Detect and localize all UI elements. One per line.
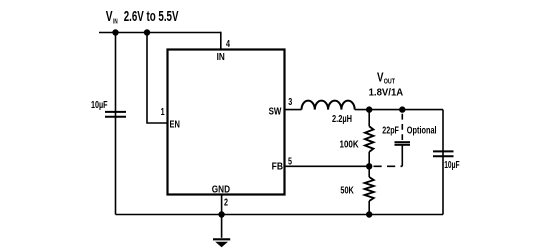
svg-text:SW: SW — [269, 105, 282, 116]
svg-text:4: 4 — [226, 38, 230, 49]
svg-text:Optional: Optional — [407, 124, 437, 136]
svg-text:IN: IN — [113, 17, 118, 25]
svg-text:1: 1 — [161, 106, 165, 117]
svg-text:2.6V to 5.5V: 2.6V to 5.5V — [124, 8, 179, 24]
svg-text:22pF: 22pF — [382, 124, 399, 136]
svg-text:V: V — [106, 8, 113, 24]
svg-text:3: 3 — [288, 96, 292, 107]
svg-text:FB: FB — [272, 161, 284, 173]
svg-text:10µF: 10µF — [91, 99, 108, 111]
svg-text:1.8V/1A: 1.8V/1A — [369, 87, 404, 98]
svg-text:2: 2 — [224, 196, 228, 207]
svg-text:10µF: 10µF — [444, 158, 460, 170]
svg-text:50K: 50K — [340, 184, 354, 196]
svg-text:100K: 100K — [340, 139, 359, 150]
svg-text:2.2µH: 2.2µH — [332, 113, 352, 124]
svg-text:EN: EN — [170, 118, 180, 129]
svg-text:5: 5 — [288, 155, 292, 166]
svg-text:IN: IN — [217, 51, 225, 62]
svg-text:V: V — [377, 72, 384, 85]
svg-text:OUT: OUT — [384, 78, 395, 86]
svg-text:GND: GND — [212, 184, 230, 195]
